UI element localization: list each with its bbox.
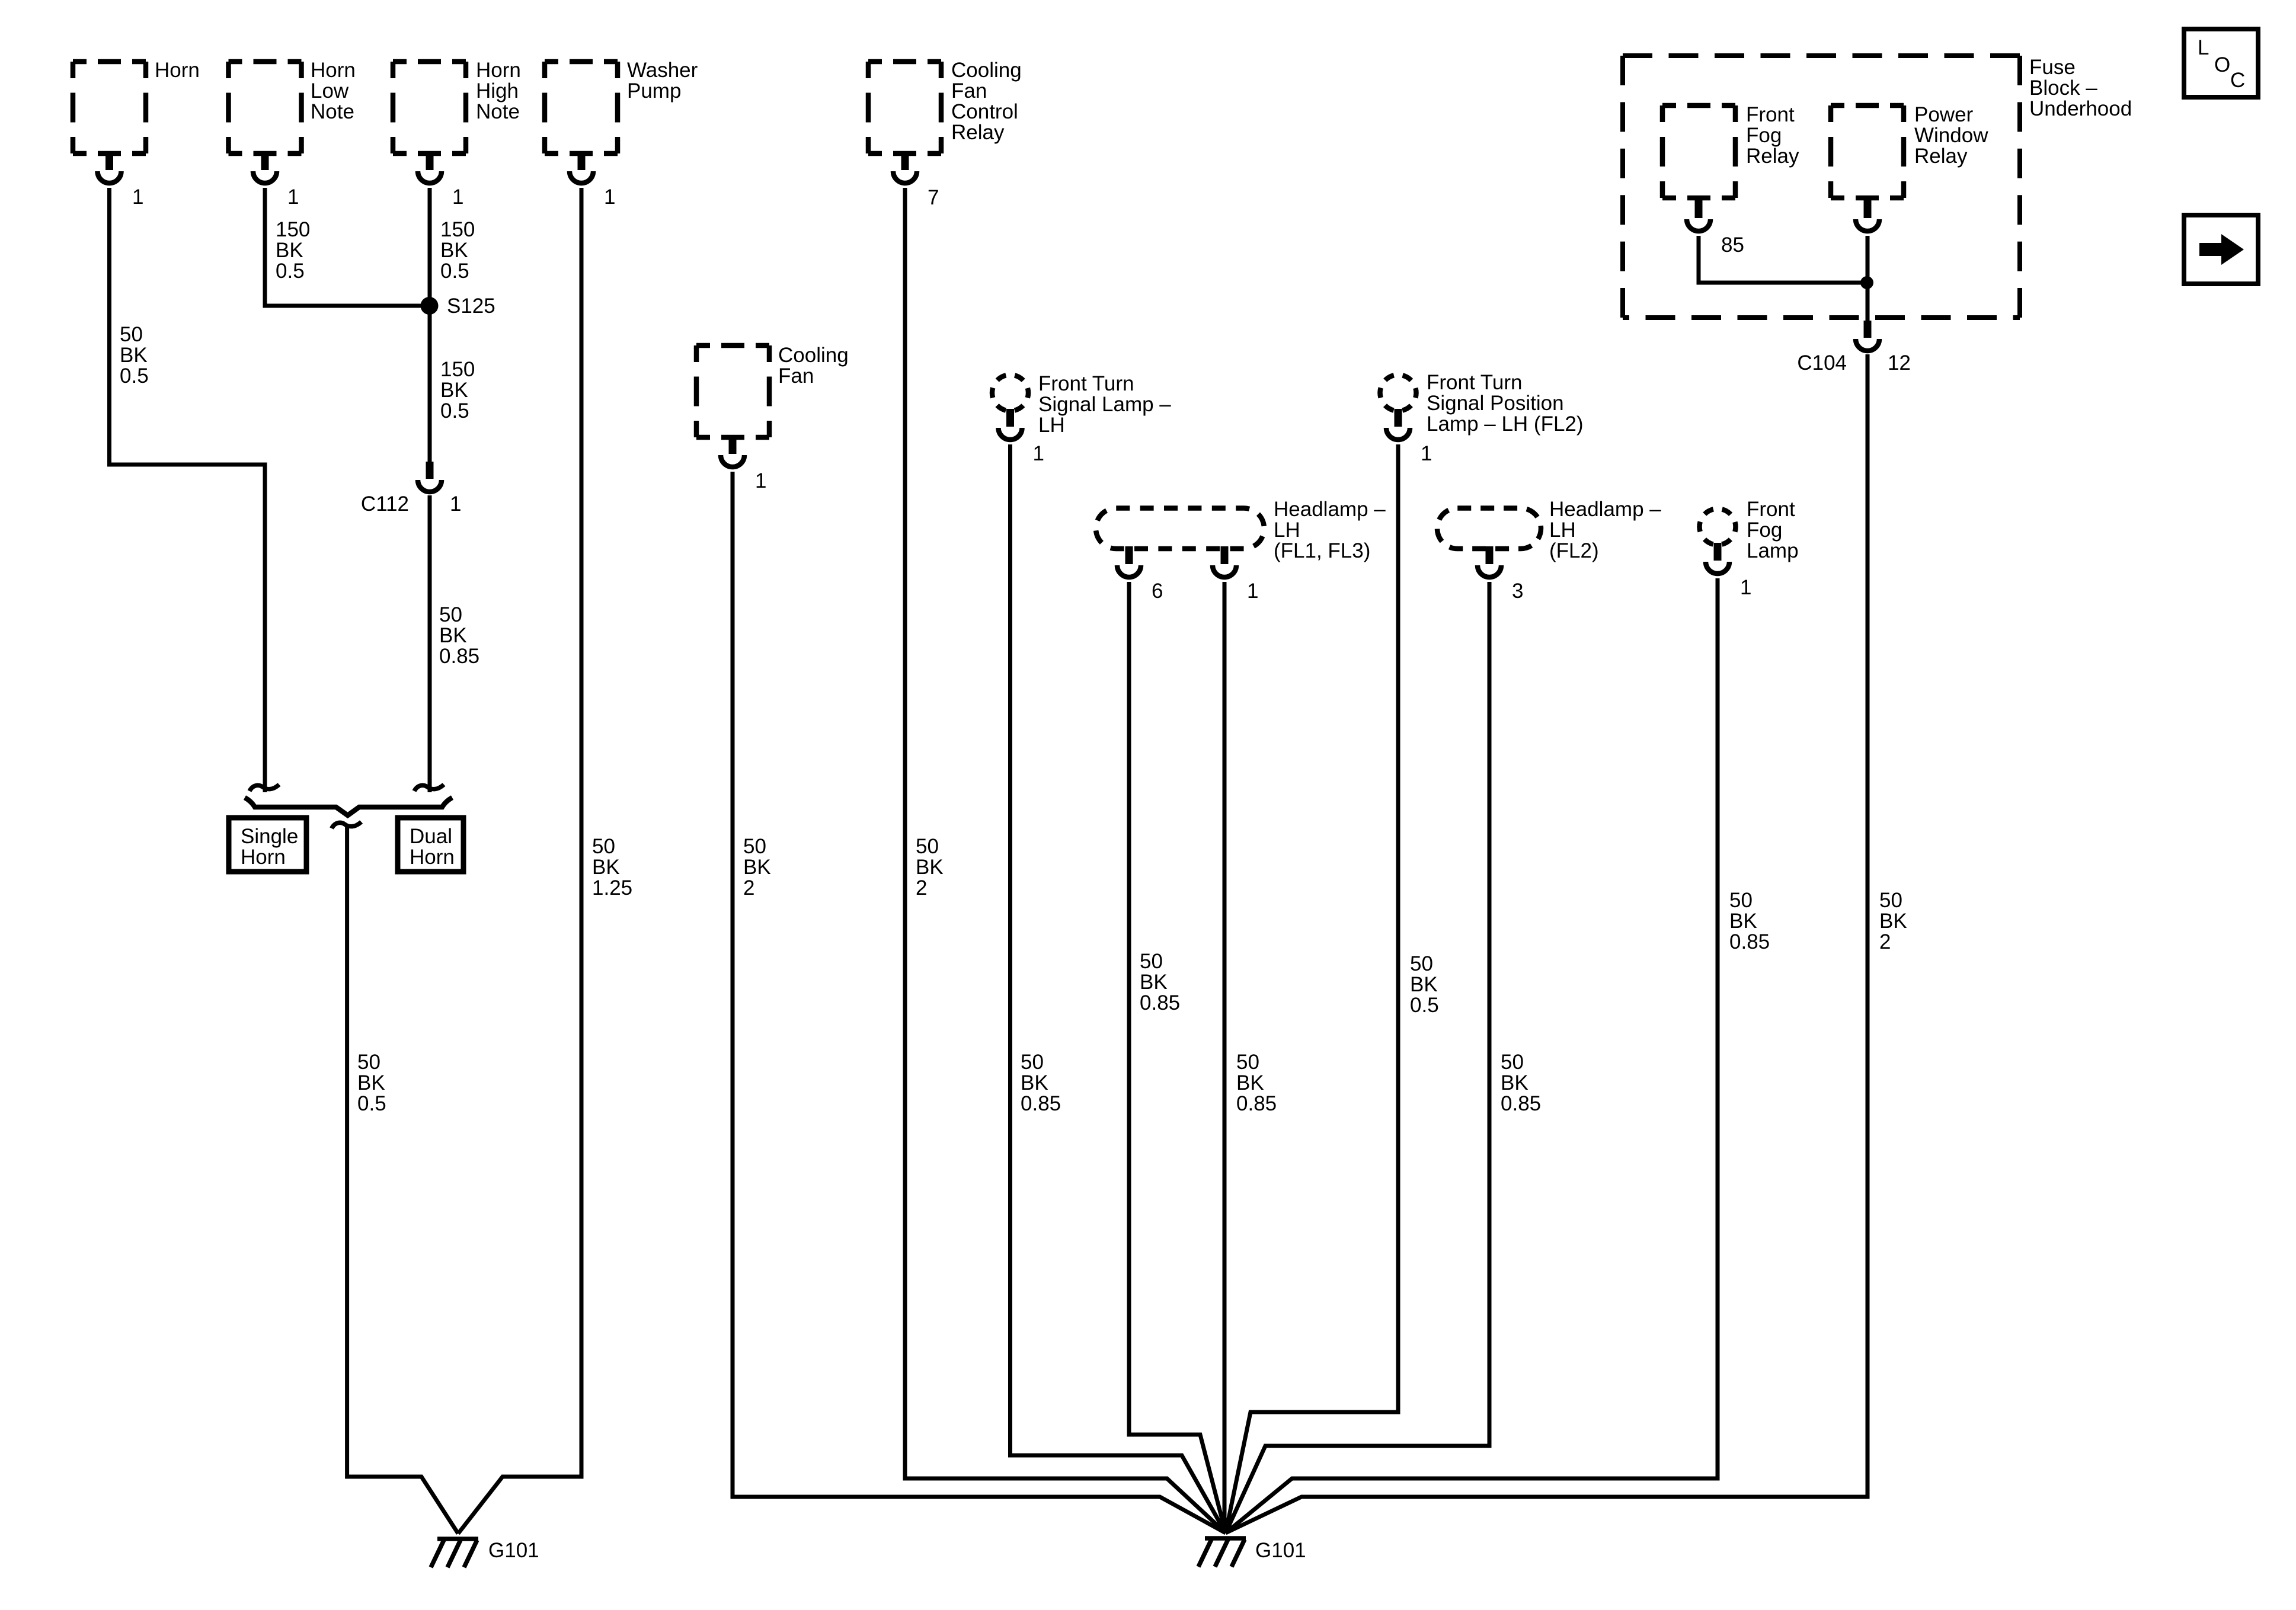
pin 1 of Front Fog Lamp [1706, 543, 1729, 574]
svg-text:0.85: 0.85 [1021, 1092, 1061, 1115]
component box: Horn [73, 62, 146, 153]
svg-text:1: 1 [755, 469, 766, 492]
svg-text:50: 50 [592, 835, 615, 858]
svg-text:50: 50 [1501, 1051, 1524, 1074]
label G101 (right) [1255, 1539, 1306, 1562]
wire: Horn pin 1 to splice column (50 BK 0.5) [110, 188, 266, 792]
svg-text:BK: BK [439, 624, 467, 647]
svg-text:Dual: Dual [410, 825, 452, 848]
svg-text:Underhood: Underhood [2029, 97, 2132, 120]
wire end hook (Horn branch) [250, 785, 279, 791]
svg-text:2: 2 [1879, 930, 1891, 953]
svg-text:Front Turn: Front Turn [1427, 371, 1522, 394]
svg-text:Control: Control [951, 100, 1018, 123]
wire: Front Turn Signal Lamp LH to ground G101 right (50 BK 0.85) [1011, 444, 1226, 1533]
label S125 [447, 295, 495, 318]
svg-text:Window: Window [1914, 124, 1988, 147]
pin 1 of Washer Pump [570, 152, 593, 183]
svg-text:1: 1 [1740, 576, 1751, 599]
pin number 1 (Washer Pump) [604, 185, 615, 209]
svg-text:Front: Front [1747, 498, 1795, 521]
wire label 50 BK 0.5 (Front Turn Signal Position Lamp) [1410, 952, 1439, 1017]
svg-text:1: 1 [452, 185, 463, 209]
svg-text:1: 1 [450, 492, 461, 516]
wire: Front Turn Signal Position Lamp to ground G101 right (50 BK 0.5) [1226, 444, 1398, 1533]
pin number 85 (Front Fog Relay) [1721, 233, 1744, 257]
label: Headlamp - LH (FL2) [1549, 498, 1661, 562]
label: Cooling Fan [778, 344, 849, 388]
pin number 1 (Horn) [132, 185, 143, 209]
pin number 1 (C112) [450, 492, 461, 516]
svg-text:1: 1 [1247, 580, 1258, 603]
ground symbol G101 (right) [1198, 1538, 1246, 1567]
svg-text:Horn: Horn [476, 59, 521, 82]
svg-text:BK: BK [1021, 1071, 1048, 1094]
label: Front Fog Relay [1746, 103, 1799, 168]
svg-text:1.25: 1.25 [592, 876, 632, 900]
svg-text:Horn: Horn [410, 846, 455, 869]
pin 6 of Headlamp - LH (FL1, FL3) [1117, 546, 1141, 577]
svg-text:L: L [2198, 36, 2209, 59]
wire: Cooling Fan Control Relay pin 7 to ground G101 right (50 BK 2) [905, 188, 1226, 1533]
svg-text:0.5: 0.5 [440, 399, 469, 422]
pin number 6 (Headlamp FL1 FL3) [1152, 580, 1163, 603]
junction dot (fuse block internal) [1860, 276, 1873, 289]
svg-text:Fuse: Fuse [2029, 56, 2076, 79]
svg-text:1: 1 [132, 185, 143, 209]
pin 1 of Horn Low Note [253, 152, 277, 183]
wire: Horn High Note pin 1 down to C112 (150 BK 0.5) [428, 188, 432, 462]
svg-text:C112: C112 [361, 492, 409, 516]
svg-text:50: 50 [1729, 889, 1753, 912]
svg-text:Relay: Relay [1914, 145, 1968, 168]
wire label 50 BK 0.85 (Headlamp pin 6) [1140, 950, 1180, 1014]
option box: Dual Horn [398, 818, 463, 872]
component: Front Fog Lamp (dashed circle) [1700, 509, 1736, 545]
component: Front Turn Signal Lamp - LH (dashed circle) [992, 375, 1028, 411]
svg-text:Fog: Fog [1746, 124, 1782, 147]
svg-text:Single: Single [241, 825, 298, 848]
svg-text:50: 50 [1140, 950, 1163, 973]
pin number 1 (Horn High Note) [452, 185, 463, 209]
svg-text:BK: BK [916, 856, 944, 879]
pin 1 of Front Turn Signal Position Lamp [1386, 409, 1410, 440]
svg-text:0.5: 0.5 [276, 260, 305, 283]
brace grouping Single Horn / Dual Horn options [245, 798, 452, 815]
component box: Washer Pump [545, 62, 618, 153]
svg-text:Low: Low [311, 79, 349, 103]
svg-text:(FL1, FL3): (FL1, FL3) [1274, 539, 1370, 562]
label: Washer Pump [627, 59, 698, 103]
pin 3 of Headlamp - LH (FL2) [1478, 546, 1501, 577]
option box: Single Horn [229, 818, 306, 872]
svg-text:0.5: 0.5 [440, 260, 469, 283]
svg-text:7: 7 [928, 186, 939, 209]
svg-text:50: 50 [439, 603, 462, 626]
pin 1 of Horn High Note [418, 152, 442, 183]
svg-text:0.85: 0.85 [439, 645, 479, 668]
svg-text:50: 50 [1021, 1051, 1044, 1074]
svg-text:Signal Position: Signal Position [1427, 392, 1564, 415]
svg-text:Front: Front [1746, 103, 1795, 126]
svg-text:2: 2 [743, 876, 754, 900]
svg-text:O: O [2214, 53, 2230, 76]
svg-text:85: 85 [1721, 233, 1744, 257]
svg-text:Headlamp –: Headlamp – [1274, 498, 1386, 521]
svg-text:Front Turn: Front Turn [1038, 372, 1134, 395]
svg-text:0.5: 0.5 [357, 1092, 386, 1115]
svg-text:Headlamp –: Headlamp – [1549, 498, 1661, 521]
svg-text:Pump: Pump [627, 79, 681, 103]
label: Fuse Block - Underhood [2029, 56, 2132, 120]
svg-text:1: 1 [1033, 442, 1044, 465]
wire: brace to ground G101 left (50 BK 0.5) [347, 825, 458, 1534]
svg-text:0.85: 0.85 [1729, 930, 1770, 953]
svg-text:150: 150 [440, 218, 475, 241]
pin 1 of Cooling Fan [721, 436, 744, 467]
svg-text:Signal Lamp –: Signal Lamp – [1038, 393, 1171, 416]
pin 1 of Horn (tick + connector cup) [98, 152, 121, 183]
component: Headlamp - LH (FL1, FL3) (dashed outline) [1096, 508, 1264, 549]
svg-text:1: 1 [287, 185, 299, 209]
svg-text:BK: BK [1879, 910, 1907, 933]
label: Cooling Fan Control Relay [951, 59, 1022, 144]
wire: Front Fog Relay pin 85 to junction [1699, 236, 1867, 283]
svg-text:Power: Power [1914, 103, 1974, 126]
pin number 1 (Front Turn Signal Position Lamp) [1421, 442, 1432, 465]
pin number 1 (Cooling Fan) [755, 469, 766, 492]
svg-text:BK: BK [1140, 971, 1168, 994]
label C112 [361, 492, 409, 516]
label G101 (left) [488, 1539, 539, 1562]
svg-text:BK: BK [440, 379, 468, 402]
wire: Headlamp FL1/FL3 pin 6 to ground G101 right (50 BK 0.85) [1129, 582, 1226, 1533]
wire label 50 BK 1.25 (Washer Pump) [592, 835, 632, 900]
pin 7 of Cooling Fan Control Relay [893, 152, 917, 183]
svg-text:BK: BK [1501, 1071, 1528, 1094]
wire: Power Window Relay to C104 [1866, 236, 1870, 321]
pin number 1 (Horn Low Note) [287, 185, 299, 209]
wire label 50 BK 2 (Cooling Fan Control Relay) [916, 835, 944, 900]
label: Front Turn Signal Position Lamp - LH (FL2) [1427, 371, 1584, 436]
svg-text:0.85: 0.85 [1236, 1092, 1277, 1115]
svg-text:Lamp: Lamp [1747, 539, 1799, 562]
svg-text:BK: BK [357, 1071, 385, 1094]
pin number 12 (C104) [1888, 351, 1911, 375]
svg-text:Fan: Fan [951, 79, 987, 103]
wire start hook (below brace) [332, 822, 362, 828]
svg-text:Note: Note [311, 100, 354, 123]
component box: Cooling Fan Control Relay [868, 62, 941, 153]
svg-text:1: 1 [1421, 442, 1432, 465]
svg-text:LH: LH [1038, 414, 1065, 437]
svg-text:Horn: Horn [241, 846, 286, 869]
svg-text:BK: BK [1729, 910, 1757, 933]
svg-text:Horn: Horn [155, 59, 200, 82]
svg-text:Fog: Fog [1747, 518, 1782, 542]
pin of Power Window Relay [1856, 200, 1879, 231]
wire label 50 BK 0.85 (below C112) [439, 603, 479, 668]
svg-text:50: 50 [1236, 1051, 1259, 1074]
wire: Headlamp FL2 pin 3 to ground G101 right (50 BK 0.85) [1226, 582, 1489, 1533]
label: Headlamp - LH (FL1, FL3) [1274, 498, 1386, 562]
wire: Front Fog Lamp to ground G101 right (50 BK 0.85) [1226, 578, 1718, 1533]
wire label 50 BK 0.85 (Front Fog Lamp) [1729, 889, 1770, 953]
pin 85 of Front Fog Relay [1687, 200, 1710, 231]
svg-text:50: 50 [1410, 952, 1433, 975]
label: Horn High Note [476, 59, 521, 123]
svg-text:S125: S125 [447, 295, 495, 318]
wire label 50 BK 0.85 (Headlamp FL2 pin 3) [1501, 1051, 1541, 1115]
component box: Front Fog Relay [1662, 105, 1735, 198]
svg-text:Cooling: Cooling [951, 59, 1022, 82]
pin number 1 (Front Turn Signal Lamp - LH) [1033, 442, 1044, 465]
wire: Washer Pump to ground G101 left (50 BK 1.25) [458, 188, 581, 1534]
svg-text:BK: BK [1410, 973, 1438, 996]
component box: Power Window Relay [1831, 105, 1904, 198]
wire: Horn Low Note pin 1 to splice S125 (150 BK 0.5) [265, 188, 430, 306]
svg-text:3: 3 [1512, 580, 1523, 603]
component box: Horn High Note [393, 62, 466, 153]
label: Horn [155, 59, 200, 82]
svg-text:Note: Note [476, 100, 520, 123]
svg-text:50: 50 [743, 835, 766, 858]
label: Front Turn Signal Lamp - LH [1038, 372, 1171, 437]
label: Power Window Relay [1914, 103, 1988, 168]
LOC legend box (top right) [2184, 29, 2258, 97]
svg-text:6: 6 [1152, 580, 1163, 603]
svg-text:BK: BK [440, 239, 468, 262]
wire label 50 BK 0.5 (common horn ground wire) [357, 1051, 386, 1115]
svg-text:50: 50 [1879, 889, 1902, 912]
wire label 150 BK 0.5 (Horn Low Note) [276, 218, 310, 283]
pin 1 of Headlamp - LH (FL1, FL3) [1213, 546, 1236, 577]
pin number 3 (Headlamp FL2) [1512, 580, 1523, 603]
svg-text:G101: G101 [1255, 1539, 1306, 1562]
svg-text:2: 2 [916, 876, 927, 900]
svg-text:0.85: 0.85 [1140, 991, 1180, 1014]
wire label 50 BK 0.85 (Front Turn Signal Lamp LH) [1021, 1051, 1061, 1115]
connector C104 (in-line) [1856, 321, 1879, 351]
svg-text:Lamp – LH (FL2): Lamp – LH (FL2) [1427, 412, 1584, 436]
svg-text:BK: BK [120, 344, 148, 367]
svg-text:Block –: Block – [2029, 76, 2097, 100]
svg-text:BK: BK [276, 239, 303, 262]
svg-text:Cooling: Cooling [778, 344, 849, 367]
wire: Headlamp FL1/FL3 pin 1 to ground G101 right (50 BK 0.85) [1223, 582, 1227, 1533]
label: Front Fog Lamp [1747, 498, 1799, 562]
wire label 150 BK 0.5 (below S125) [440, 358, 475, 422]
wire label 50 BK 0.85 (Headlamp pin 1) [1236, 1051, 1277, 1115]
wire: Cooling Fan to ground G101 right (50 BK 2) [733, 472, 1226, 1533]
svg-text:C104: C104 [1797, 351, 1847, 375]
svg-text:C: C [2230, 69, 2245, 92]
label C104 [1797, 351, 1847, 375]
wire label 150 BK 0.5 (Horn High Note) [440, 218, 475, 283]
svg-text:BK: BK [592, 856, 620, 879]
svg-text:Relay: Relay [1746, 145, 1799, 168]
label: Horn Low Note [311, 59, 356, 123]
svg-text:150: 150 [276, 218, 310, 241]
wire: C112 to dual-horn brace (50 BK 0.85) [428, 495, 432, 792]
pin 1 of Front Turn Signal Lamp - LH [999, 409, 1022, 440]
svg-text:High: High [476, 79, 519, 103]
svg-text:(FL2): (FL2) [1549, 539, 1599, 562]
connector C112 (in-line) [418, 462, 442, 492]
svg-text:12: 12 [1888, 351, 1911, 375]
wire end hook (Dual Horn branch) [414, 785, 444, 791]
component: Front Turn Signal Position Lamp - LH FL2 (dashed circle) [1380, 375, 1416, 411]
svg-text:50: 50 [916, 835, 939, 858]
pin number 1 (Front Fog Lamp) [1740, 576, 1751, 599]
pin number 7 (Cooling Fan Control Relay) [928, 186, 939, 209]
svg-text:Fan: Fan [778, 364, 814, 388]
arrow legend box (right) [2184, 215, 2258, 284]
component box: Cooling Fan [696, 345, 769, 437]
svg-text:50: 50 [120, 323, 143, 346]
svg-text:Relay: Relay [951, 121, 1005, 144]
wire: C104 pin 12 to ground G101 right (50 BK 2) [1226, 354, 1868, 1533]
svg-text:LH: LH [1549, 518, 1576, 542]
pin number 1 (Headlamp FL1 FL3) [1247, 580, 1258, 603]
svg-text:LH: LH [1274, 518, 1300, 542]
component: Headlamp - LH FL2 (dashed outline) [1437, 508, 1541, 549]
wire label 50 BK 2 (Cooling Fan) [743, 835, 771, 900]
svg-text:0.5: 0.5 [120, 364, 149, 388]
splice S125 (junction dot) [421, 297, 439, 315]
ground symbol G101 (left) [431, 1539, 478, 1567]
svg-text:G101: G101 [488, 1539, 539, 1562]
svg-text:BK: BK [743, 856, 771, 879]
svg-text:1: 1 [604, 185, 615, 209]
svg-text:0.85: 0.85 [1501, 1092, 1541, 1115]
svg-text:150: 150 [440, 358, 475, 381]
svg-text:Horn: Horn [311, 59, 356, 82]
component box: Horn Low Note [229, 62, 302, 153]
wire label 50 BK 2 (C104) [1879, 889, 1907, 953]
svg-text:Washer: Washer [627, 59, 698, 82]
svg-text:BK: BK [1236, 1071, 1264, 1094]
svg-text:0.5: 0.5 [1410, 994, 1439, 1017]
wire label 50 BK 0.5 (Horn) [120, 323, 149, 388]
svg-text:50: 50 [357, 1051, 380, 1074]
component box: Fuse Block - Underhood [1623, 56, 2020, 318]
